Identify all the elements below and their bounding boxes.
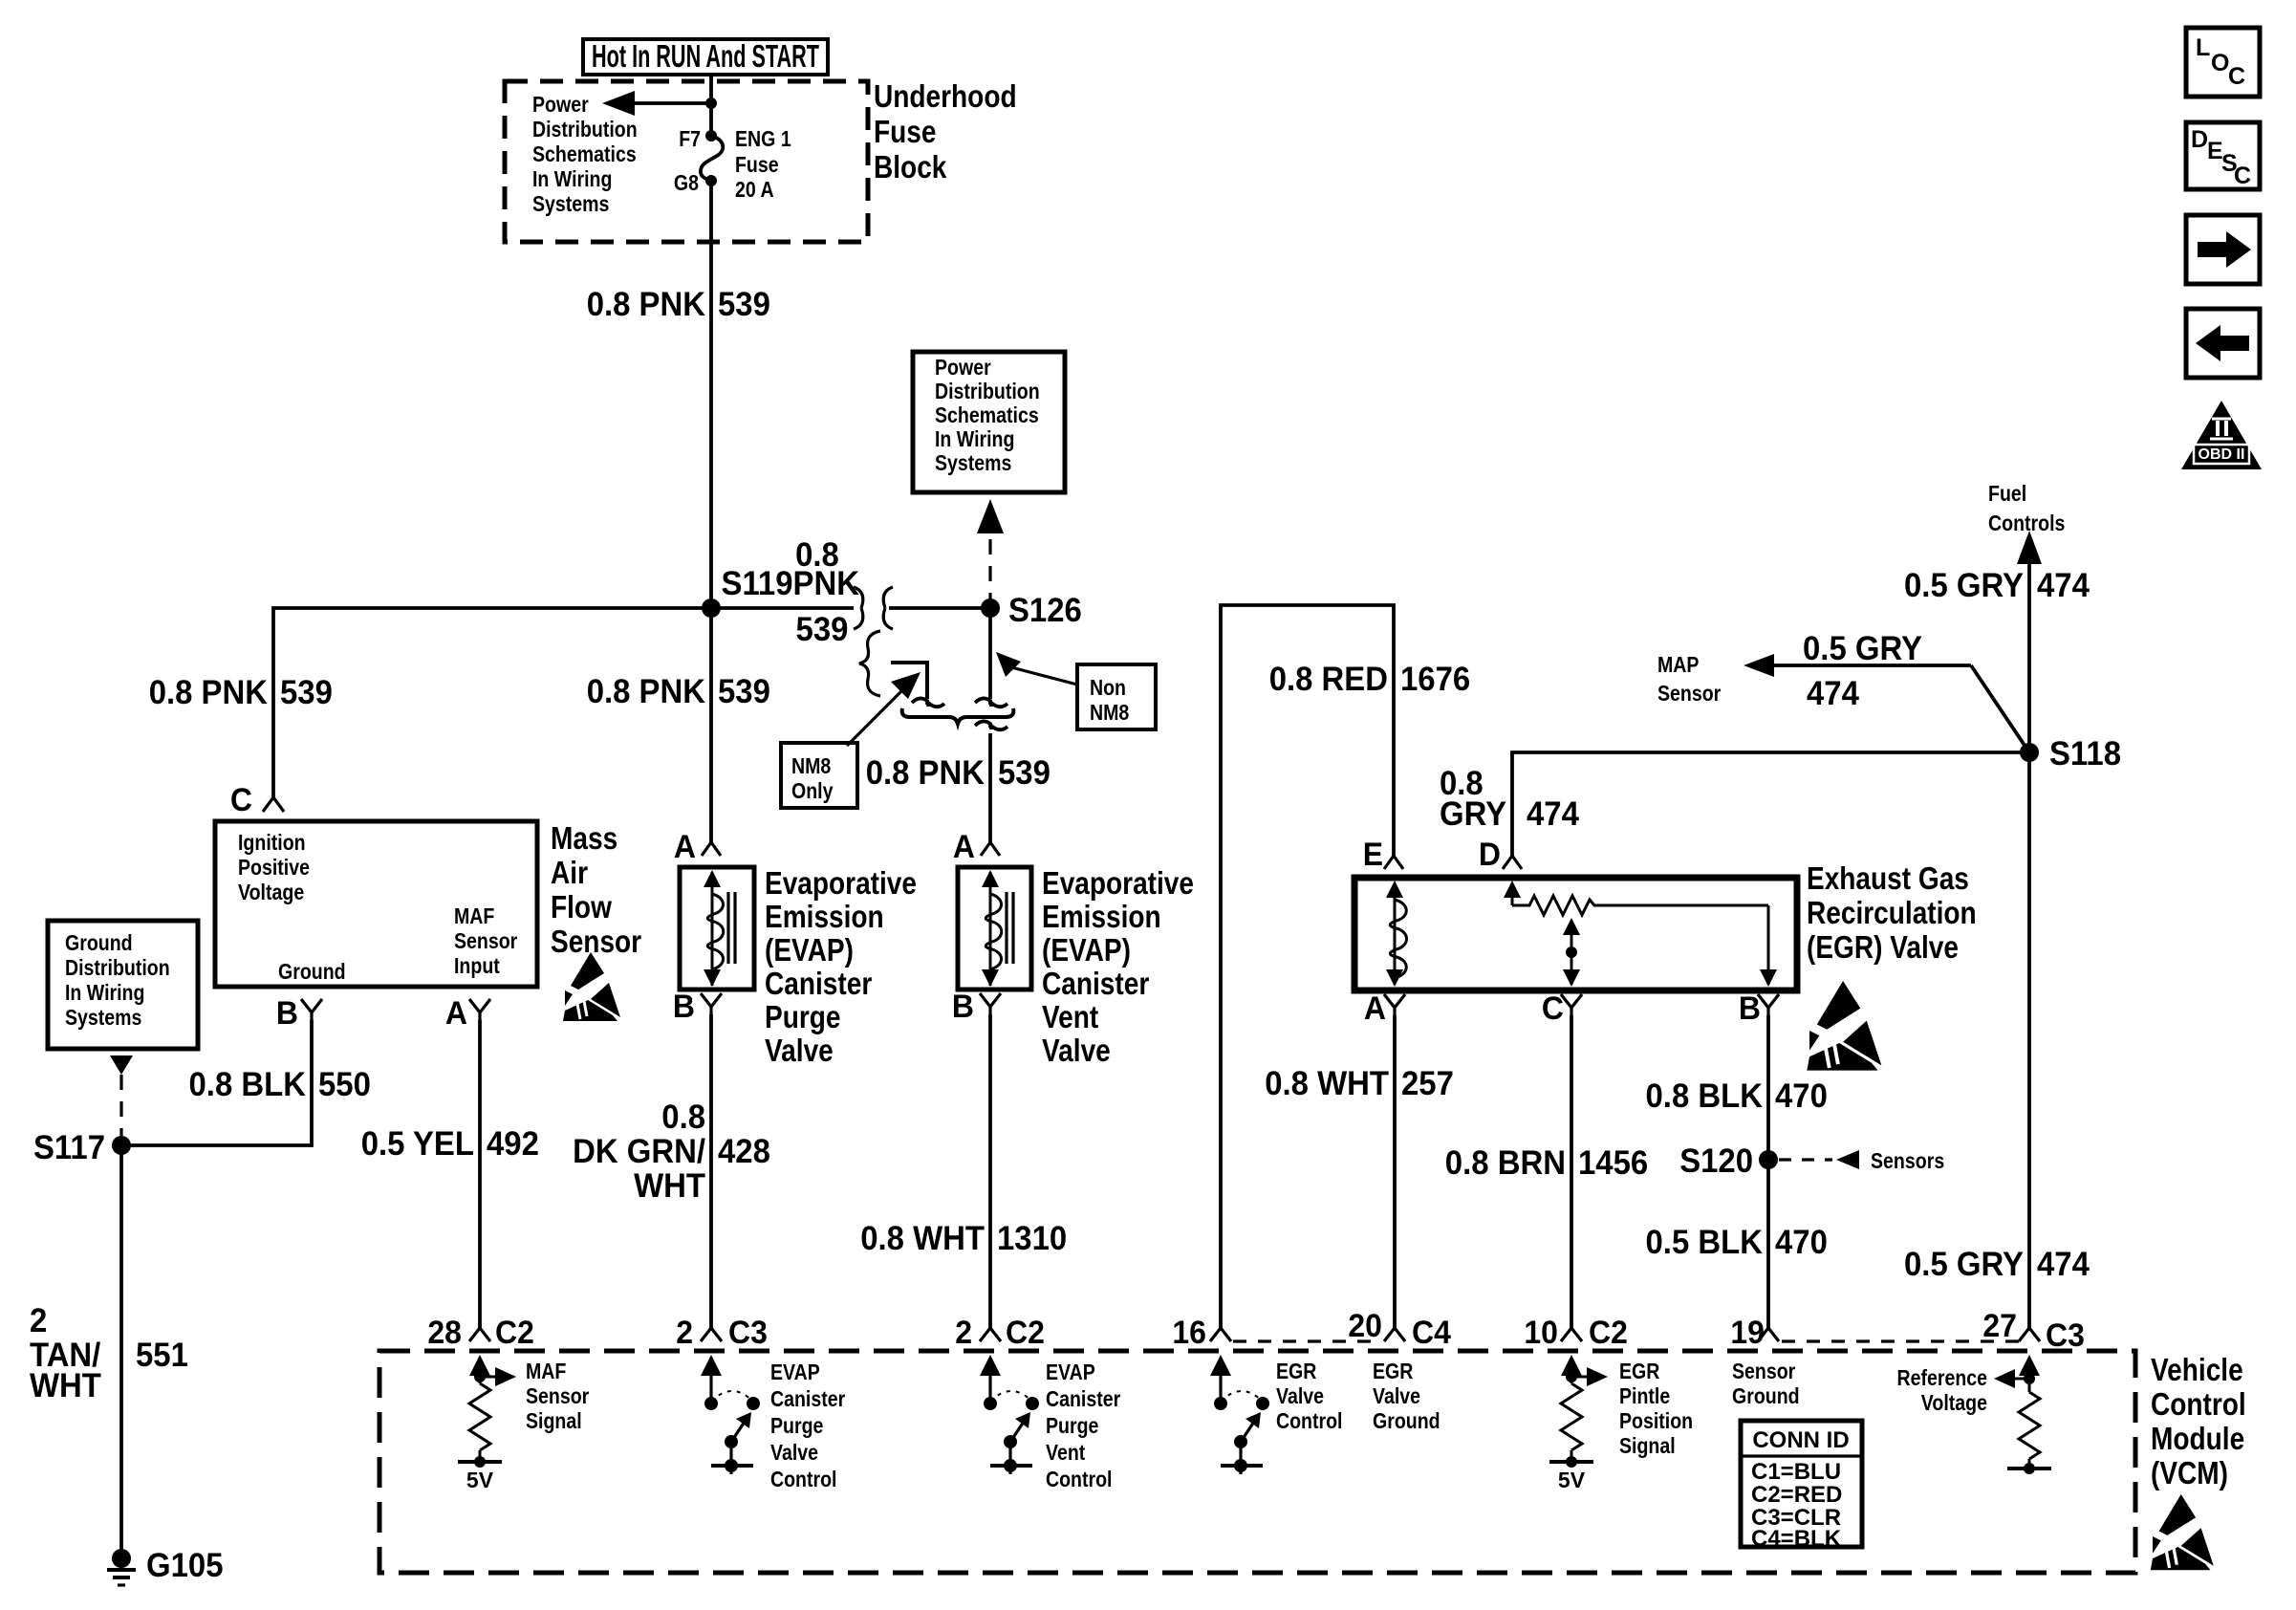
wire purge B down to VCM pin 2 C3: [709, 1014, 713, 1328]
svg-text:EVAP: EVAP: [770, 1360, 820, 1384]
OBD II icon: [2181, 401, 2262, 469]
svg-text:0.8 RED: 0.8 RED: [1269, 661, 1388, 698]
Underhood Fuse Block label: [874, 78, 1017, 185]
svg-text:2: 2: [676, 1315, 693, 1351]
svg-text:(EVAP): (EVAP): [765, 932, 854, 968]
label 0.8 BLK 550: [189, 1066, 371, 1103]
dashed wire up from S126 to Power Distribution box: [977, 499, 1004, 608]
svg-text:Ignition: Ignition: [238, 830, 306, 855]
node S118: [2020, 743, 2039, 762]
MAP Sensor label: [1657, 652, 1721, 706]
svg-text:S120: S120: [1679, 1142, 1753, 1180]
EVAP Canister Purge Vent Control label: [1046, 1360, 1120, 1491]
svg-text:Sensors: Sensors: [1871, 1148, 1944, 1173]
svg-text:539: 539: [796, 611, 849, 648]
svg-text:Fuse: Fuse: [874, 114, 937, 149]
svg-text:Sensor: Sensor: [1732, 1359, 1795, 1383]
svg-text:Only: Only: [791, 778, 834, 803]
Vehicle Control Module dashed box: [379, 1351, 2135, 1573]
svg-text:Module: Module: [2151, 1421, 2244, 1456]
Vehicle Control Module (VCM) label: [2151, 1352, 2246, 1490]
svg-text:DK GRN/: DK GRN/: [573, 1133, 705, 1170]
DESC icon: [2186, 122, 2260, 189]
svg-text:0.8 PNK: 0.8 PNK: [866, 754, 985, 792]
svg-text:Fuse: Fuse: [735, 152, 779, 177]
svg-text:CONN ID: CONN ID: [1752, 1427, 1849, 1453]
Evaporative Emission (EVAP) Canister Purge Valve label: [765, 865, 917, 1068]
svg-text:Canister: Canister: [1046, 1386, 1120, 1411]
EGR valve driver switch: [1210, 1355, 1269, 1474]
wire MAF A down to VCM pin 28: [478, 1020, 482, 1328]
svg-text:MAP: MAP: [1657, 652, 1700, 677]
svg-text:257: 257: [1401, 1065, 1454, 1102]
purge valve internal wire and arrows: [704, 870, 721, 987]
svg-text:Sensor: Sensor: [1657, 681, 1721, 706]
MAF Sensor Signal label: [526, 1359, 589, 1433]
arrow from NM8 Only box to alternate path: [847, 672, 921, 746]
svg-text:Valve: Valve: [770, 1440, 818, 1465]
svg-text:Canister: Canister: [1042, 966, 1149, 1001]
svg-text:10: 10: [1524, 1315, 1558, 1351]
Exhaust Gas Recirculation (EGR) Valve label: [1807, 860, 1977, 965]
svg-text:Schematics: Schematics: [532, 141, 637, 166]
svg-text:GRY: GRY: [1440, 795, 1506, 833]
wire 0.8 PNK 539 from fuse to S119: [709, 181, 713, 608]
svg-text:1676: 1676: [1400, 661, 1470, 698]
svg-text:G105: G105: [146, 1547, 224, 1584]
purge valve core bars: [728, 892, 735, 964]
wire S119 down to EVAP purge valve: [709, 608, 713, 842]
svg-text:492: 492: [487, 1125, 539, 1163]
svg-text:2: 2: [955, 1315, 972, 1351]
svg-text:Power: Power: [532, 92, 589, 117]
S119 wire label 0.8 S119PNK 539: [722, 536, 860, 648]
svg-text:C1=BLU: C1=BLU: [1751, 1459, 1841, 1485]
wire connector to S126: [889, 606, 990, 610]
svg-text:2: 2: [30, 1302, 47, 1339]
pin 10 connector: [1561, 1328, 1582, 1341]
svg-text:Valve: Valve: [1276, 1383, 1324, 1408]
wire S119 left to MAF pin C: [273, 608, 711, 797]
svg-text:Evaporative: Evaporative: [1042, 865, 1194, 901]
svg-text:L: L: [2196, 34, 2210, 61]
EVAP canister purge valve box: [680, 867, 754, 990]
svg-text:Fuel: Fuel: [1988, 481, 2026, 506]
svg-text:A: A: [1364, 990, 1386, 1027]
node S120: [1759, 1150, 1778, 1169]
pin 20 connector: [1384, 1328, 1405, 1341]
svg-text:Purge: Purge: [1046, 1413, 1098, 1438]
arrow to Power Distribution: [602, 91, 717, 116]
svg-text:Signal: Signal: [526, 1408, 582, 1433]
label 0.8 DK GRN/ WHT 428: [573, 1099, 770, 1205]
svg-text:539: 539: [280, 674, 333, 711]
svg-text:(EGR) Valve: (EGR) Valve: [1807, 929, 1959, 965]
svg-text:0.8 PNK: 0.8 PNK: [149, 674, 268, 711]
EGR Pintle Position Signal label: [1619, 1359, 1693, 1458]
svg-text:B: B: [673, 989, 695, 1025]
wire EGR D up and over to S118 (0.8 GRY 474): [1512, 752, 2029, 856]
svg-text:0.8 WHT: 0.8 WHT: [1265, 1065, 1389, 1102]
svg-text:Voltage: Voltage: [238, 880, 304, 904]
svg-text:WHT: WHT: [634, 1167, 705, 1205]
svg-text:Canister: Canister: [765, 966, 872, 1001]
EGR pin E connector: [1384, 856, 1403, 869]
svg-text:Ground: Ground: [1373, 1408, 1440, 1433]
node S126: [981, 598, 1000, 618]
svg-text:Ground: Ground: [278, 959, 346, 984]
svg-text:Ground: Ground: [1732, 1383, 1800, 1408]
svg-text:Mass: Mass: [551, 820, 617, 856]
svg-text:B: B: [276, 995, 298, 1032]
svg-text:(EVAP): (EVAP): [1042, 932, 1131, 968]
svg-text:Control: Control: [1276, 1408, 1343, 1433]
pin A connector: [469, 999, 490, 1020]
svg-text:Valve: Valve: [1373, 1383, 1420, 1408]
EGR pin C connector: [1561, 994, 1582, 1015]
wire S119 to inline connector: [711, 606, 854, 610]
EGR pin D connector: [1503, 856, 1522, 869]
svg-text:539: 539: [718, 673, 770, 710]
svg-text:Distribution: Distribution: [935, 379, 1040, 403]
svg-text:(VCM): (VCM): [2151, 1455, 2228, 1490]
EGR pin B connector: [1758, 994, 1779, 1015]
svg-text:Recirculation: Recirculation: [1807, 895, 1977, 930]
svg-text:C4: C4: [1412, 1315, 1451, 1351]
svg-text:In Wiring: In Wiring: [935, 426, 1014, 451]
wire EGR B down to VCM pin 19: [1766, 1015, 1770, 1328]
svg-text:0.5 BLK: 0.5 BLK: [1646, 1224, 1764, 1261]
svg-text:474: 474: [1807, 675, 1859, 712]
pin 2 C3 connector: [701, 1328, 722, 1341]
EVAP canister vent valve box: [958, 867, 1031, 990]
vent valve core bars: [1007, 892, 1013, 964]
svg-text:EGR: EGR: [1276, 1359, 1317, 1383]
svg-text:Controls: Controls: [1988, 511, 2065, 535]
svg-text:0.8 BRN: 0.8 BRN: [1445, 1144, 1566, 1182]
wire to MAP sensor with arrow: [1744, 654, 2029, 752]
svg-text:A: A: [445, 995, 467, 1032]
svg-text:WHT: WHT: [30, 1367, 101, 1404]
EGR Valve Ground label: [1373, 1359, 1440, 1433]
svg-text:Valve: Valve: [1042, 1033, 1111, 1068]
Underhood Fuse Block dashed box: [505, 81, 868, 242]
purge valve pin B connector: [701, 993, 722, 1014]
label 2 TAN/ WHT 551: [30, 1302, 188, 1404]
svg-text:Exhaust Gas: Exhaust Gas: [1807, 860, 1969, 896]
svg-text:EVAP: EVAP: [1046, 1360, 1095, 1384]
svg-text:474: 474: [2037, 567, 2090, 604]
pin 2 C2 connector: [980, 1328, 1001, 1341]
arrow from Ground Distribution box down: [110, 1055, 133, 1075]
inline connector halves (NM8 splice): [854, 587, 893, 629]
pin 16 connector: [1210, 1328, 1231, 1341]
svg-text:Positive: Positive: [238, 855, 310, 880]
svg-text:F7: F7: [679, 126, 701, 151]
svg-text:C2=RED: C2=RED: [1751, 1482, 1842, 1508]
MAF sensor box: [215, 821, 537, 987]
EGR pintle position potentiometer: [1504, 881, 1777, 987]
svg-text:Sensor: Sensor: [454, 928, 517, 953]
label 0.5 BLK 470: [1646, 1224, 1828, 1261]
svg-text:C4=BLK: C4=BLK: [1751, 1526, 1842, 1552]
svg-text:0.8 PNK: 0.8 PNK: [587, 673, 705, 710]
svg-text:16: 16: [1172, 1315, 1206, 1351]
Reference Voltage label: [1897, 1365, 1988, 1415]
label 0.8 WHT 257: [1265, 1065, 1454, 1102]
svg-text:470: 470: [1775, 1077, 1828, 1115]
Mass Air Flow Sensor label: [551, 820, 641, 959]
svg-text:0.8 PNK: 0.8 PNK: [587, 286, 705, 323]
label 0.8 RED 1676: [1269, 661, 1471, 698]
svg-text:19: 19: [1730, 1315, 1765, 1351]
CONN ID table: [1741, 1421, 1862, 1552]
Power Distribution note (fuse block): [532, 92, 638, 216]
svg-text:1456: 1456: [1578, 1144, 1648, 1182]
label 0.8 PNK 539 (left branch): [149, 674, 333, 711]
svg-text:D: D: [1479, 837, 1501, 873]
label 0.8 WHT 1310: [860, 1220, 1067, 1257]
svg-text:C2: C2: [1589, 1315, 1628, 1351]
svg-text:Purge: Purge: [770, 1413, 823, 1438]
wire from Hot box into fuse block: [709, 75, 713, 136]
EVAP vent valve driver switch: [980, 1355, 1039, 1474]
svg-text:550: 550: [318, 1066, 371, 1103]
svg-text:470: 470: [1775, 1224, 1828, 1261]
svg-text:C3: C3: [728, 1315, 768, 1351]
EGR Valve Control label: [1276, 1359, 1343, 1433]
svg-text:Control: Control: [2151, 1386, 2246, 1422]
MAF sensor signal input circuit: [458, 1355, 516, 1468]
EGR pin A connector: [1384, 994, 1405, 1015]
wire S126 down to EVAP vent valve: [988, 608, 992, 699]
purge valve pin A connector: [702, 842, 721, 856]
svg-text:0.5 GRY: 0.5 GRY: [1904, 567, 2024, 604]
forward arrow icon: [2186, 215, 2260, 284]
svg-text:Air: Air: [551, 855, 588, 890]
svg-text:A: A: [953, 829, 975, 865]
Ground Distribution box: [48, 921, 198, 1049]
svg-text:S126: S126: [1008, 592, 1082, 629]
label 0.8 PNK 539 (top): [587, 286, 770, 323]
EGR solenoid coil: [1390, 900, 1406, 978]
ESD symbol (VCM): [2151, 1494, 2214, 1570]
purge valve solenoid coil: [707, 894, 724, 969]
EGR solenoid coil wire with arrows: [1386, 881, 1403, 987]
svg-text:OBD II: OBD II: [2199, 446, 2245, 463]
svg-text:Reference: Reference: [1897, 1365, 1988, 1390]
wire MAF B to S117: [130, 1020, 312, 1145]
svg-text:C3: C3: [2046, 1317, 2085, 1354]
svg-text:474: 474: [1527, 795, 1579, 833]
svg-text:5V: 5V: [1558, 1468, 1586, 1492]
wire EGR C down to VCM pin 10 (0.8 BRN 1456): [1570, 1015, 1573, 1328]
svg-text:Block: Block: [874, 149, 947, 185]
wire S118 up to Fuel Controls: [2017, 531, 2042, 752]
vent valve pin A connector: [981, 842, 1000, 856]
wire VCM pin 16 up and over to EGR pin E (0.8 RED 1676): [1221, 605, 1394, 1328]
back arrow icon: [2186, 309, 2260, 378]
vent valve solenoid coil: [986, 894, 1002, 969]
svg-text:Systems: Systems: [532, 191, 609, 216]
svg-text:ENG 1: ENG 1: [735, 126, 791, 151]
svg-text:0.5 YEL: 0.5 YEL: [361, 1125, 474, 1163]
svg-text:Underhood: Underhood: [874, 78, 1017, 114]
svg-text:Pintle: Pintle: [1619, 1383, 1670, 1408]
svg-text:Schematics: Schematics: [935, 402, 1039, 427]
svg-text:C2: C2: [495, 1315, 534, 1351]
svg-text:In Wiring: In Wiring: [65, 980, 144, 1005]
svg-text:C2: C2: [1006, 1315, 1045, 1351]
label 0.8 PNK 539 (below NM8): [866, 754, 1051, 792]
vent valve pin B connector: [980, 993, 1001, 1014]
svg-text:B: B: [952, 989, 974, 1025]
svg-text:Purge: Purge: [765, 999, 841, 1034]
svg-text:In Wiring: In Wiring: [532, 166, 612, 191]
node S117: [112, 1136, 131, 1155]
label 0.8 BLK 470: [1646, 1077, 1828, 1115]
svg-text:428: 428: [718, 1133, 770, 1170]
dashed link pin 16 to pin 20: [1233, 1339, 1382, 1342]
dashed stub to Sensors: [1779, 1150, 1859, 1169]
svg-text:Vent: Vent: [1046, 1440, 1086, 1465]
svg-text:Sensor: Sensor: [526, 1383, 589, 1408]
Fuel Controls label: [1988, 481, 2065, 535]
svg-text:Hot In RUN And START: Hot In RUN And START: [592, 38, 819, 74]
label 0.5 YEL 492: [361, 1125, 539, 1163]
reference voltage circuit: [1994, 1355, 2051, 1474]
svg-text:Control: Control: [770, 1467, 837, 1491]
Power Distribution Schematics box (center): [913, 352, 1065, 492]
svg-text:Sensor: Sensor: [551, 924, 641, 959]
svg-text:Flow: Flow: [551, 889, 612, 925]
fuse ENG 1 20A: [701, 130, 723, 186]
Non NM8 box: [1077, 664, 1156, 729]
svg-text:A: A: [674, 829, 696, 865]
svg-text:539: 539: [998, 754, 1051, 792]
svg-text:C: C: [2228, 63, 2245, 90]
brace (NM8 variant): [859, 631, 880, 696]
svg-text:MAF: MAF: [526, 1359, 566, 1383]
svg-text:S117: S117: [33, 1129, 105, 1166]
svg-text:551: 551: [136, 1337, 188, 1374]
svg-text:Valve: Valve: [765, 1033, 834, 1068]
label 0.8 BRN 1456: [1445, 1144, 1648, 1182]
NM8-only alternate path: [891, 663, 1013, 729]
LOC icon: [2186, 28, 2260, 97]
svg-text:474: 474: [2037, 1246, 2090, 1283]
pin 27 connector: [2019, 1328, 2040, 1341]
arrow from Non NM8 box to S126 wire: [996, 652, 1077, 685]
svg-text:Vehicle: Vehicle: [2151, 1352, 2243, 1387]
dashed wire to S117: [119, 1075, 122, 1138]
svg-text:Evaporative: Evaporative: [765, 865, 917, 901]
svg-text:539: 539: [718, 286, 770, 323]
pin C connector: [263, 797, 284, 812]
svg-text:EGR: EGR: [1619, 1359, 1660, 1383]
label 0.8 GRY 474: [1440, 765, 1579, 833]
svg-text:NM8: NM8: [1090, 700, 1129, 725]
vent valve internal wire and arrows: [982, 870, 999, 987]
svg-text:S119PNK: S119PNK: [722, 565, 860, 602]
EVAP Canister Purge Valve Control label: [770, 1360, 845, 1491]
svg-text:Non: Non: [1090, 675, 1126, 700]
Hot In RUN And START box: [583, 38, 828, 75]
svg-text:C: C: [2234, 163, 2251, 189]
svg-text:Signal: Signal: [1619, 1433, 1676, 1458]
EVAP purge valve driver switch: [701, 1355, 760, 1474]
ground G105: [107, 1549, 136, 1585]
svg-text:Power: Power: [935, 355, 991, 380]
label 0.5 GRY 474 (fuel controls): [1904, 567, 2090, 604]
svg-text:28: 28: [427, 1315, 462, 1351]
svg-text:0.8 WHT: 0.8 WHT: [860, 1220, 985, 1257]
svg-text:Ground: Ground: [65, 930, 133, 955]
ESD symbol (EGR): [1807, 981, 1881, 1071]
svg-text:E: E: [1363, 837, 1383, 873]
svg-text:0.8 BLK: 0.8 BLK: [189, 1066, 307, 1103]
svg-text:0.5 GRY: 0.5 GRY: [1904, 1246, 2024, 1283]
svg-text:NM8: NM8: [791, 753, 831, 778]
svg-text:0.8: 0.8: [661, 1099, 705, 1136]
wire S118 down to VCM pin 27 (0.5 GRY 474): [2027, 752, 2031, 1328]
svg-text:20: 20: [1348, 1308, 1382, 1344]
svg-text:G8: G8: [674, 170, 699, 195]
pin 19 connector: [1758, 1328, 1779, 1341]
wire vent B down to VCM pin 2 C2: [988, 1014, 992, 1328]
Sensor Ground label: [1732, 1359, 1800, 1408]
MAF box internal labels: [238, 830, 517, 984]
wire EGR A down to VCM pin 20 (0.8 WHT 257): [1393, 1015, 1397, 1328]
svg-text:27: 27: [1982, 1308, 2017, 1344]
svg-text:Voltage: Voltage: [1921, 1390, 1987, 1415]
svg-text:20 A: 20 A: [735, 177, 774, 202]
svg-text:Systems: Systems: [935, 450, 1011, 475]
svg-text:EGR: EGR: [1373, 1359, 1414, 1383]
svg-text:C: C: [230, 782, 252, 818]
svg-text:Distribution: Distribution: [65, 955, 170, 980]
svg-text:Systems: Systems: [65, 1005, 141, 1030]
node S119: [702, 598, 721, 618]
svg-text:5V: 5V: [466, 1468, 494, 1492]
EGR valve box: [1354, 878, 1797, 990]
label 0.5 GRY / 474 (MAP branch): [1803, 630, 1922, 712]
svg-text:Position: Position: [1619, 1408, 1693, 1433]
svg-text:Distribution: Distribution: [532, 117, 638, 141]
EGR pintle position circuit: [1549, 1355, 1608, 1468]
svg-text:Input: Input: [454, 953, 500, 978]
svg-text:Vent: Vent: [1042, 999, 1098, 1034]
svg-text:Canister: Canister: [770, 1386, 845, 1411]
svg-text:O: O: [2211, 50, 2229, 76]
svg-text:Control: Control: [1046, 1467, 1113, 1491]
svg-text:1310: 1310: [997, 1220, 1067, 1257]
svg-text:D: D: [2191, 126, 2208, 153]
EGR potentiometer wiper: [1563, 918, 1580, 987]
wire S117 to G105: [119, 1145, 123, 1552]
dashed link pin 19 to pin 27: [1782, 1339, 2019, 1342]
NM8 Only box: [781, 743, 857, 808]
svg-text:Emission: Emission: [1042, 899, 1161, 934]
pin B connector: [301, 999, 322, 1020]
svg-text:Emission: Emission: [765, 899, 884, 934]
pin 28 connector: [469, 1328, 490, 1341]
ESD symbol (MAF): [563, 952, 620, 1021]
label 0.5 GRY 474 (to pin 27): [1904, 1246, 2090, 1283]
svg-text:MAF: MAF: [454, 903, 494, 928]
svg-text:0.8 BLK: 0.8 BLK: [1646, 1077, 1764, 1115]
label 0.8 PNK 539 (center branch): [587, 673, 770, 710]
